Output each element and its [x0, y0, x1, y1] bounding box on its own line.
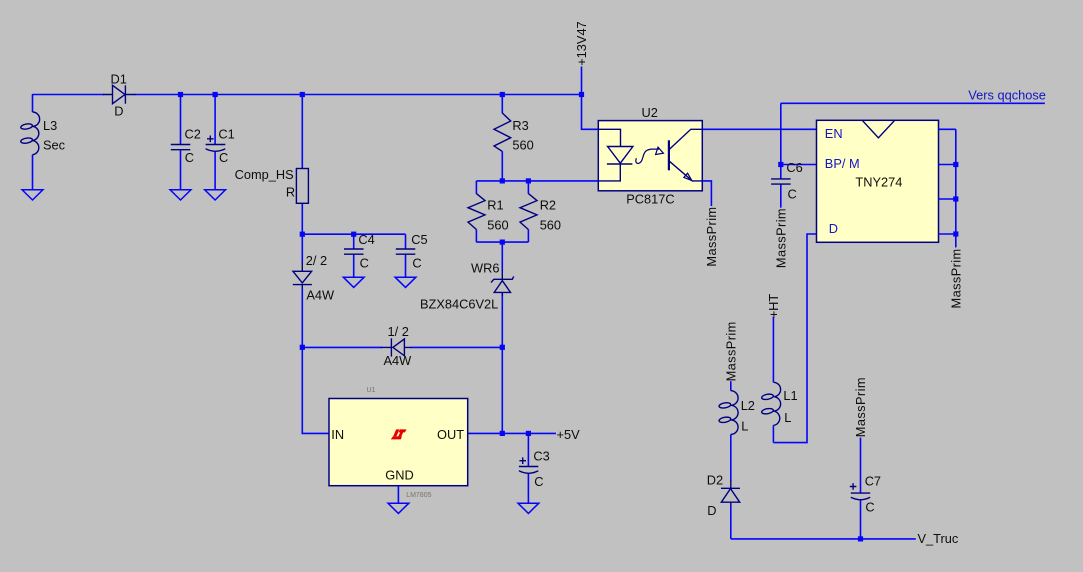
junction TNY pin2 [953, 162, 958, 167]
ground under C5 [395, 277, 416, 287]
svg-text:BZX84C6V2L: BZX84C6V2L [420, 297, 498, 312]
junction R3 bottom [500, 178, 505, 183]
junction +13V47 [579, 92, 584, 97]
svg-text:GND: GND [385, 467, 413, 482]
junction TNY pin4 [953, 231, 958, 236]
U1 red LT logo [391, 429, 407, 439]
opto U2 PC817C box [598, 105, 702, 207]
wire U2 emitter to MassPrim [702, 181, 711, 206]
svg-text:L1: L1 [783, 388, 797, 403]
svg-text:C: C [360, 256, 369, 271]
svg-text:TNY274: TNY274 [855, 174, 902, 189]
svg-text:A4W: A4W [306, 288, 335, 303]
svg-text:D2: D2 [707, 473, 723, 488]
resistor R3 560 [494, 95, 534, 181]
resistor Comp_HS [235, 95, 309, 235]
wire top bus left of D1 [33, 94, 105, 96]
svg-text:D1: D1 [111, 72, 127, 87]
diode D2 [707, 473, 740, 539]
junction OUT / zener [500, 431, 505, 436]
capacitor C6 [771, 160, 803, 208]
svg-text:MassPrim: MassPrim [948, 248, 963, 308]
svg-text:L: L [784, 410, 791, 425]
junction BP/M / C6 [778, 162, 783, 167]
svg-text:L3: L3 [43, 118, 57, 133]
svg-text:Comp_HS: Comp_HS [235, 167, 294, 182]
diode 1/2 A4W [381, 324, 412, 368]
diode 2/2 A4W [293, 234, 335, 347]
svg-text:560: 560 [487, 218, 508, 233]
junction top bus / C1 [213, 92, 218, 97]
junction TNY pin3 [953, 196, 958, 201]
junction C4 [351, 232, 356, 237]
svg-text:+5V: +5V [557, 427, 581, 442]
svg-text:C: C [788, 187, 797, 202]
junction node below Comp_HS [300, 232, 305, 237]
svg-text:Sec: Sec [43, 138, 66, 153]
svg-text:D: D [114, 103, 123, 118]
svg-text:C2: C2 [185, 126, 201, 141]
junction top bus / Comp_HS [300, 92, 305, 97]
inductor L2 [719, 381, 755, 480]
zener WR6 BZX84C6V2L [420, 242, 514, 347]
capacitor C7 (polarized) [850, 438, 881, 539]
wire TNY D pin to L1 [773, 234, 816, 443]
svg-text:C: C [865, 500, 874, 515]
svg-text:C4: C4 [358, 232, 374, 247]
svg-text:C1: C1 [218, 126, 234, 141]
svg-text:L: L [741, 419, 748, 434]
inductor L3 [20, 94, 65, 190]
ground under C3 [518, 503, 539, 513]
resistor R1 560 [468, 181, 509, 242]
wire zener to OUT bus [501, 347, 503, 433]
svg-text:C5: C5 [411, 232, 427, 247]
junction R3 top [500, 92, 505, 97]
inductor L1 [761, 317, 797, 443]
svg-text:C: C [219, 150, 228, 165]
svg-text:L2: L2 [741, 398, 755, 413]
svg-text:PC817C: PC817C [626, 192, 674, 207]
wire U2 collector to TNY EN [702, 128, 816, 130]
IC TNY274 box [817, 120, 939, 242]
wire BP/M [781, 164, 817, 166]
wire bottom bus V_Truc [731, 538, 916, 540]
capacitor C4 [344, 232, 375, 277]
svg-text:C7: C7 [865, 473, 881, 488]
wire Vers qqchose [781, 102, 1045, 104]
junction 1/2 bus right [500, 345, 505, 350]
svg-text:560: 560 [512, 138, 533, 153]
ground under C2 [170, 190, 191, 200]
junction zener top [500, 240, 505, 245]
svg-text:MassPrim: MassPrim [723, 321, 738, 381]
U2 internal light arrow [636, 149, 659, 163]
svg-text:1/ 2: 1/ 2 [388, 324, 409, 339]
diode D1 [103, 72, 136, 119]
svg-text:2/ 2: 2/ 2 [306, 253, 327, 268]
svg-text:C: C [412, 256, 421, 271]
wire bus R1 R2 bottom [476, 241, 528, 243]
regulator U1 LM7805 box [329, 387, 468, 499]
svg-text:C: C [185, 150, 194, 165]
wire OUT bus +5V [468, 432, 556, 434]
svg-text:BP/ M: BP/ M [825, 156, 860, 171]
ground under C4 [343, 277, 364, 287]
svg-text:EN: EN [825, 126, 843, 141]
svg-text:C3: C3 [533, 449, 549, 464]
svg-text:R3: R3 [512, 118, 528, 133]
ground under U1 [388, 503, 409, 513]
svg-text:Vers qqchose: Vers qqchose [968, 88, 1046, 103]
svg-text:R1: R1 [487, 197, 503, 212]
svg-text:D: D [829, 221, 838, 236]
junction OUT / C3 [526, 431, 531, 436]
svg-text:MassPrim: MassPrim [853, 377, 868, 437]
wire 1/2 bus [302, 346, 502, 348]
wire vertical to BP/M [780, 103, 782, 164]
svg-text:V_Truc: V_Truc [918, 531, 959, 546]
svg-text:D: D [707, 503, 716, 518]
wire TNY right bus [955, 129, 957, 247]
svg-text:R2: R2 [540, 197, 556, 212]
junction R2 top [526, 178, 531, 183]
capacitor C3 (polarized) [519, 433, 550, 503]
U2 internal phototransistor [669, 129, 702, 181]
wire TNY right pins [939, 129, 956, 234]
capacitor C1 (polarized) [206, 95, 235, 191]
wire top bus D1 to +13V47 junction [136, 94, 582, 96]
capacitor C2 [171, 95, 201, 191]
svg-text:R: R [286, 185, 295, 200]
ground under L3 [22, 190, 43, 200]
svg-text:+13V47: +13V47 [574, 21, 589, 65]
svg-text:MassPrim: MassPrim [704, 207, 719, 267]
svg-text:MassPrim: MassPrim [774, 208, 789, 268]
wire +13V47 to U2 anode [582, 95, 599, 130]
svg-text:+HT: +HT [766, 294, 781, 319]
svg-text:C: C [534, 474, 543, 489]
svg-text:LM7805: LM7805 [406, 492, 431, 499]
svg-text:A4W: A4W [384, 353, 413, 368]
svg-text:C6: C6 [786, 160, 802, 175]
wire U1 GND stub [397, 486, 399, 504]
U2 internal LED [598, 129, 633, 181]
wire mid bus to U2 [476, 180, 598, 182]
ground under C1 [205, 190, 226, 200]
power label +13V47 [574, 21, 589, 94]
svg-text:U2: U2 [642, 105, 658, 120]
wire left vertical to U1 IN [302, 347, 329, 433]
svg-text:U1: U1 [367, 387, 376, 394]
wire bus to C4 C5 [302, 233, 405, 235]
junction top bus / C2 [178, 92, 183, 97]
capacitor C5 [396, 232, 428, 277]
svg-text:OUT: OUT [437, 427, 464, 442]
svg-text:560: 560 [540, 218, 561, 233]
junction at 1/2 bus left [300, 345, 305, 350]
junction C7 bottom [858, 536, 863, 541]
resistor R2 560 [520, 181, 561, 242]
svg-text:WR6: WR6 [471, 261, 499, 276]
svg-text:IN: IN [331, 427, 344, 442]
